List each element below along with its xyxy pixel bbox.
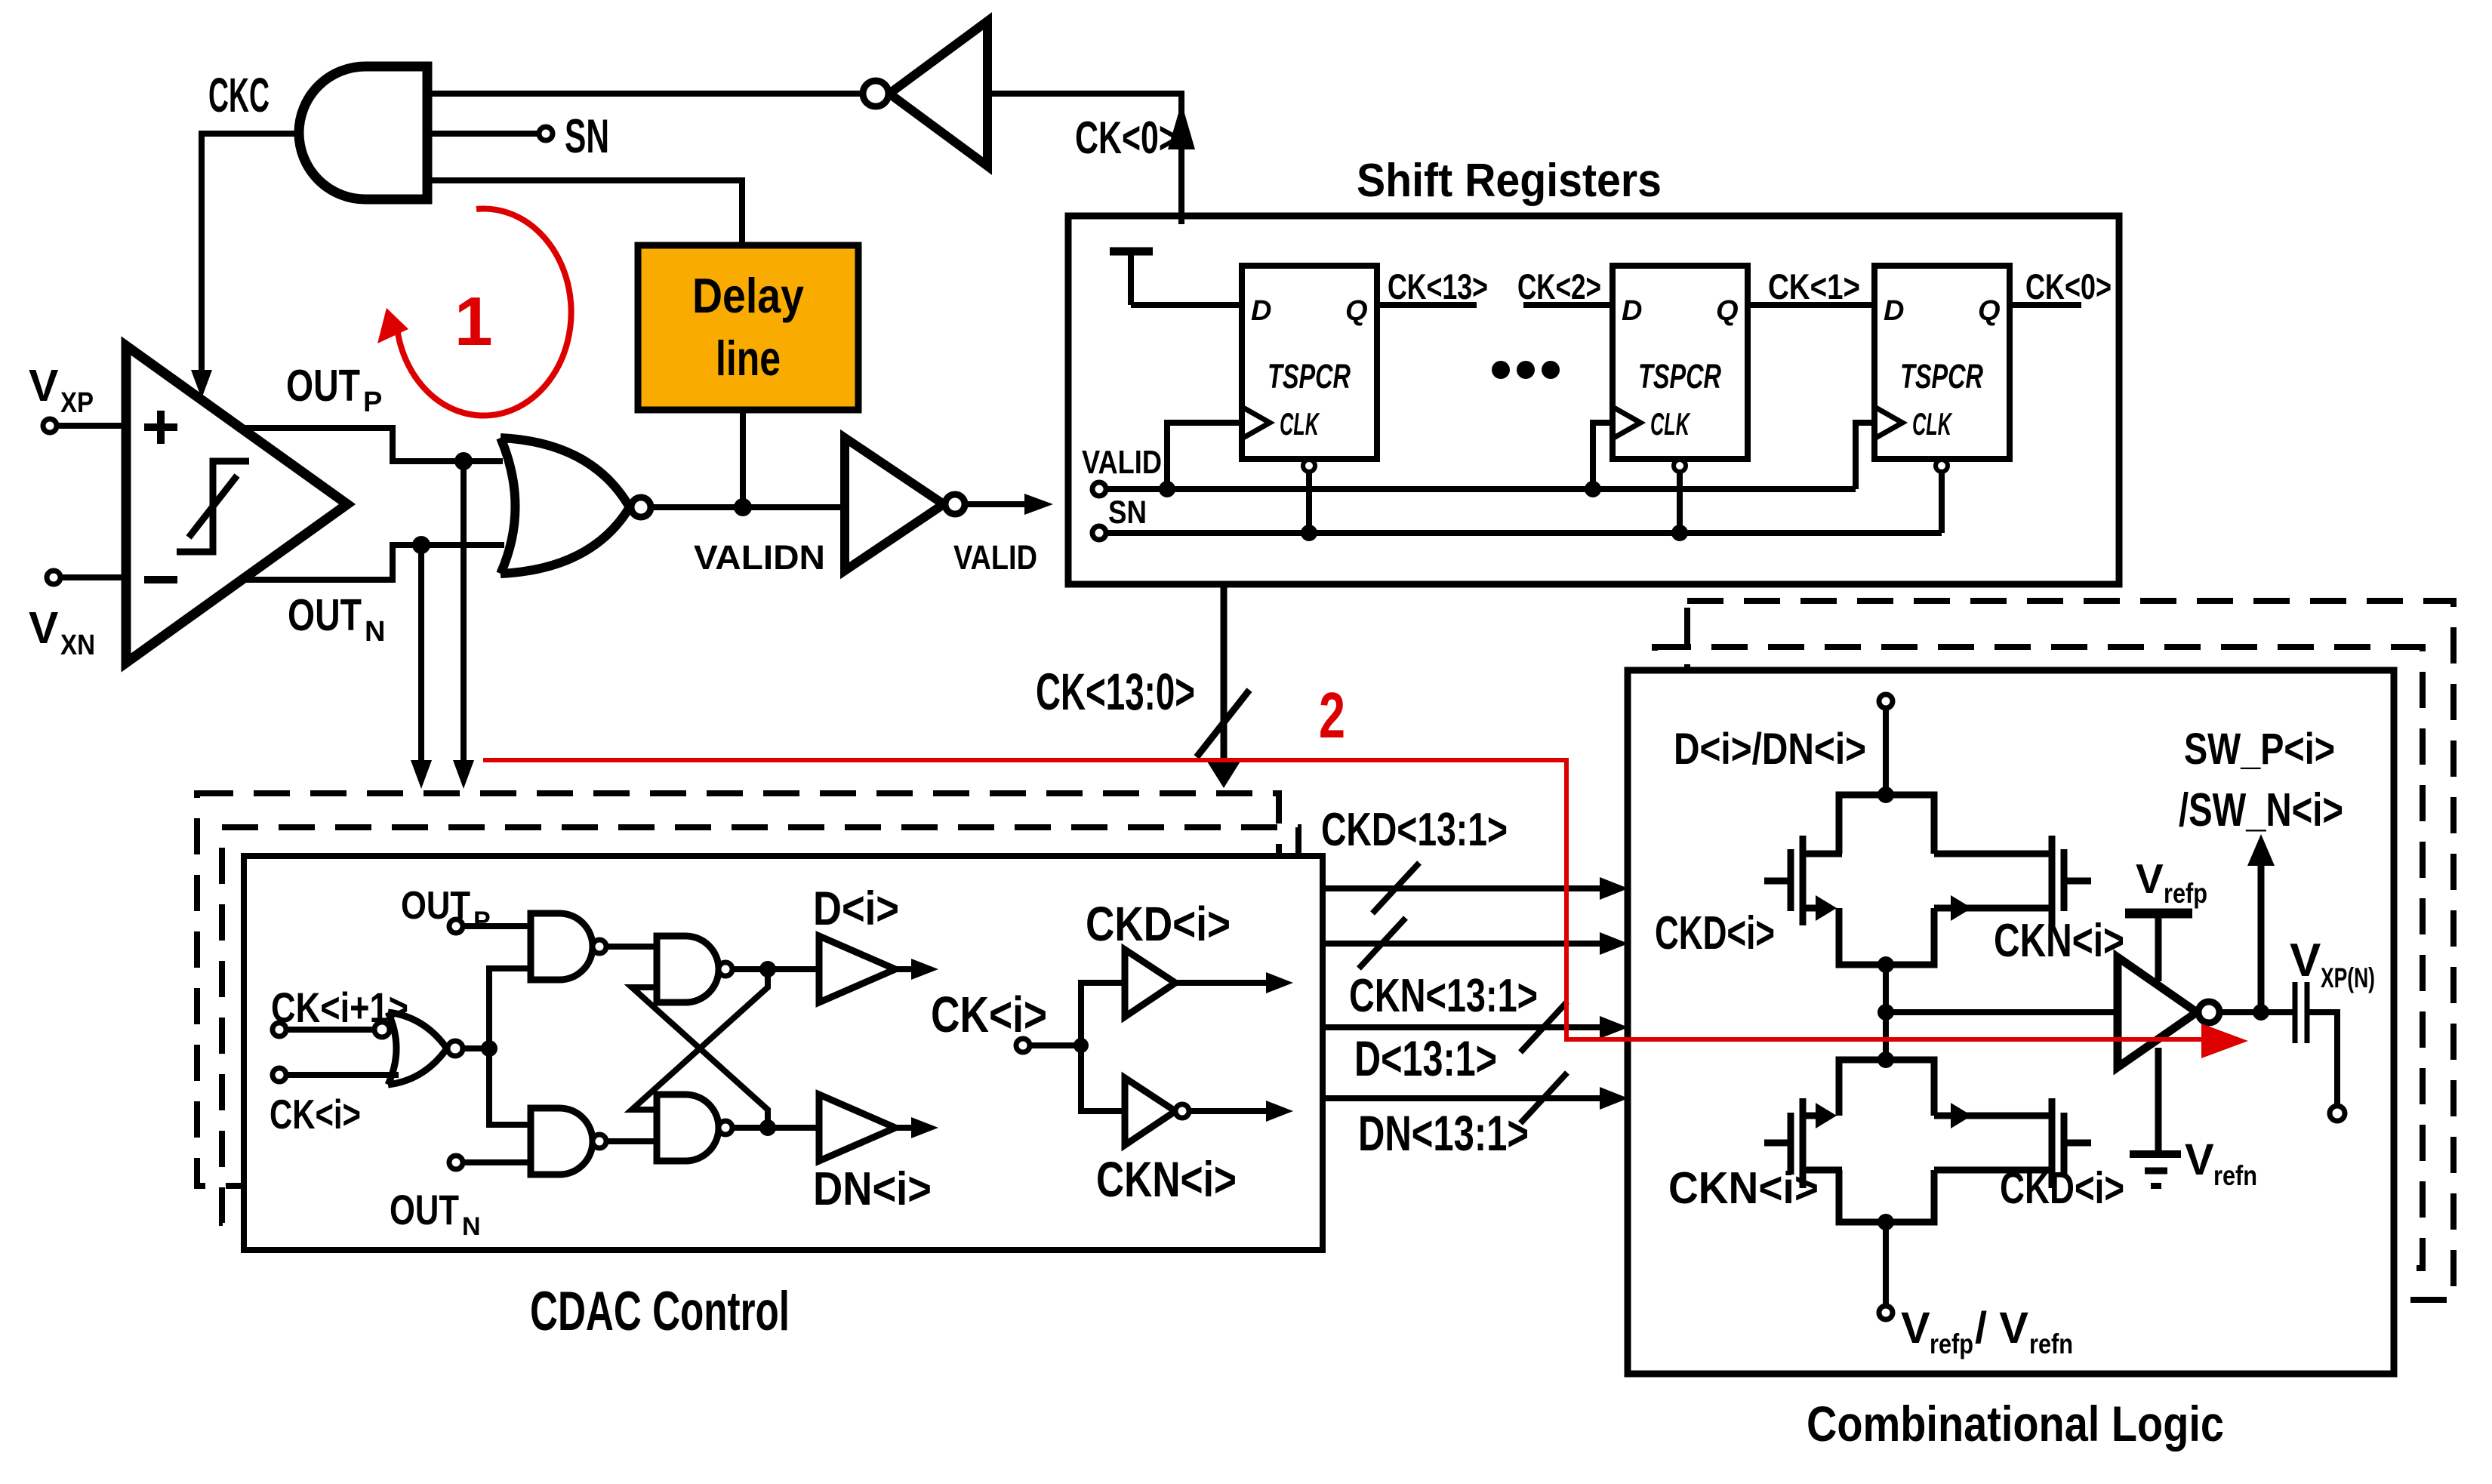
svg-text:CLK: CLK bbox=[1912, 406, 1953, 442]
svg-text:D<13:1>: D<13:1> bbox=[1354, 1030, 1497, 1086]
TG2 top rail bbox=[1839, 1060, 1934, 1116]
wire OUTN to NAND2 bbox=[463, 1159, 531, 1165]
wire clock of U8 from VALID rail bbox=[1856, 423, 1874, 489]
wire U13 output to DN buffer bbox=[732, 1125, 819, 1131]
svg-text:SN: SN bbox=[565, 110, 609, 163]
svg-text:OUT: OUT bbox=[390, 1186, 459, 1233]
wire branch up to CKD buffer bbox=[1081, 983, 1125, 1045]
wire cross-couple U13 out to U12 input bbox=[632, 987, 768, 1128]
wire bus DN<13:1> to comb logic bbox=[1323, 1095, 1602, 1101]
svg-text:CK<2>: CK<2> bbox=[1517, 266, 1601, 306]
svg-text:CK<13:0>: CK<13:0> bbox=[1036, 663, 1195, 721]
inverter U17 (CKN<i>) bbox=[1125, 1078, 1189, 1145]
nor gate U3 (VALIDN generator) bbox=[501, 438, 651, 574]
wire junction up to NAND1 input bbox=[489, 968, 531, 1048]
wire OUTP stepped from comparator to NOR input bbox=[241, 428, 503, 461]
svg-text:Delay: Delay bbox=[692, 268, 804, 323]
wire SW_P<i>/SW_N<i> arrow up bbox=[2258, 863, 2265, 1012]
svg-text:refn: refn bbox=[2213, 1160, 2257, 1191]
svg-text:V: V bbox=[2185, 1135, 2214, 1184]
wire U9 output to U12 input bbox=[606, 944, 657, 950]
transistor M2 (TG1 right) bbox=[1934, 836, 2091, 925]
wire VALIDN: NOR output to inverter bbox=[651, 504, 845, 510]
comparator hysteresis symbol bbox=[177, 461, 249, 552]
wire DN<i> output arrow bbox=[895, 1125, 915, 1131]
svg-text:SW_P<i>: SW_P<i> bbox=[2184, 725, 2335, 774]
svg-text:D: D bbox=[1884, 295, 1904, 327]
flip-flop U6 TSPCR bbox=[1242, 266, 1377, 459]
svg-text:CKC: CKC bbox=[208, 68, 270, 122]
CDAC dashed page outer bbox=[197, 793, 1279, 1186]
wire branch down to CKN inverter bbox=[1081, 1045, 1125, 1111]
transistor M1 (TG1 left) bbox=[1764, 836, 1842, 925]
wire TG1 bottom to middle node bbox=[1883, 965, 1889, 1060]
node SN terminal circle bbox=[539, 127, 553, 140]
svg-text:Q: Q bbox=[1716, 295, 1739, 327]
wire TG2 bottom to Vref terminal bbox=[1883, 1222, 1889, 1306]
node CK<i> buffer input terminal bbox=[1016, 1039, 1030, 1052]
shift registers box bbox=[1068, 216, 2119, 584]
wire bus CKD<13:1> to comb logic bbox=[1323, 885, 1602, 891]
svg-text:CK<1>: CK<1> bbox=[1768, 266, 1860, 306]
wire CK<i> to branch junction bbox=[1030, 1042, 1081, 1048]
node OUTN terminal in CDAC bbox=[449, 1156, 463, 1169]
wire U12 output to D buffer bbox=[732, 966, 819, 972]
wire: AND middle input from SN terminal bbox=[427, 131, 539, 137]
svg-text:2: 2 bbox=[1319, 680, 1345, 752]
inverter U4 (VALID) bbox=[845, 438, 965, 571]
wire VXN to comparator bbox=[60, 574, 126, 580]
svg-text:VALID: VALID bbox=[1082, 444, 1162, 481]
wire junction down to NAND2 input bbox=[489, 1048, 531, 1125]
nand gate U9 bbox=[531, 913, 606, 980]
CDAC control box bbox=[244, 856, 1323, 1250]
comb logic dashed page inner bbox=[1655, 647, 2423, 1268]
svg-text:/ V: / V bbox=[1975, 1304, 2028, 1353]
node reset pin circle of U6 bbox=[1303, 460, 1315, 472]
svg-text:XP(N): XP(N) bbox=[2321, 962, 2375, 993]
svg-text:N: N bbox=[462, 1212, 481, 1241]
node VALID terminal in SR box bbox=[1092, 482, 1106, 496]
svg-text:P: P bbox=[363, 386, 382, 418]
wire OUTP to NAND1 bbox=[463, 923, 531, 929]
wire U8 reset to SN rail bbox=[1939, 472, 1945, 533]
svg-text:1: 1 bbox=[454, 284, 493, 360]
TG2 bottom rail bbox=[1839, 1170, 1934, 1222]
svg-text:/SW_N<i>: /SW_N<i> bbox=[2179, 784, 2343, 836]
buffer U16 (CKD<i>) bbox=[1125, 950, 1175, 1017]
svg-text:VALIDN: VALIDN bbox=[694, 538, 825, 577]
wire CK<13:0> bus down from SR box with arrow bbox=[1221, 584, 1228, 776]
svg-text:D<i>/DN<i>: D<i>/DN<i> bbox=[1674, 725, 1866, 774]
svg-text:OUT: OUT bbox=[401, 884, 470, 928]
node reset pin circle of U8 bbox=[1936, 460, 1948, 472]
bus slash DN<13:1> bbox=[1520, 1073, 1567, 1123]
node VXP(N) terminal bbox=[2330, 1106, 2345, 1121]
svg-text:CK<13>: CK<13> bbox=[1388, 266, 1488, 306]
svg-text:CKD<13:1>: CKD<13:1> bbox=[1321, 804, 1508, 856]
inverter U5 (top feedback, points left) bbox=[863, 21, 987, 166]
combinational logic box bbox=[1628, 670, 2394, 1374]
bus slash on CK<13:0> bbox=[1197, 690, 1249, 757]
svg-text:OUT: OUT bbox=[288, 590, 362, 640]
wire OUTN branch down to CDAC control with arrow bbox=[418, 545, 424, 777]
wire CK<i+1> to NOR input bubble bbox=[286, 1027, 374, 1033]
node SN terminal in SR box bbox=[1092, 526, 1106, 540]
wire U11 output to U13 input bbox=[606, 1138, 657, 1144]
node junction VALIDN/delay bbox=[734, 498, 752, 516]
transistor M3 (TG2 left) bbox=[1764, 1098, 1842, 1188]
wire clock of U7 from VALID rail bbox=[1593, 423, 1613, 489]
svg-text:V: V bbox=[29, 361, 58, 411]
capacitor C1 bbox=[2295, 982, 2307, 1043]
svg-text:XP: XP bbox=[60, 387, 94, 419]
dots ellipsis between flip-flops bbox=[1492, 361, 1560, 379]
svg-text:CK<0>: CK<0> bbox=[2025, 266, 2112, 306]
wire U7 reset to SN rail bbox=[1677, 472, 1683, 533]
delay line block bbox=[638, 245, 858, 410]
svg-text:Combinational Logic: Combinational Logic bbox=[1807, 1396, 2224, 1452]
node OUTP terminal in CDAC bbox=[449, 919, 463, 933]
svg-text:CK<0>: CK<0> bbox=[1075, 112, 1178, 163]
svg-text:Q: Q bbox=[1978, 295, 2001, 327]
red loop arrow 1 bbox=[377, 209, 571, 416]
svg-text:refn: refn bbox=[2029, 1329, 2073, 1359]
node CK<i> terminal lower bbox=[273, 1068, 286, 1082]
comparator U2 bbox=[126, 346, 347, 663]
node VXP input terminal bbox=[43, 419, 57, 433]
svg-text:TSPCR: TSPCR bbox=[1900, 357, 1983, 396]
TG1 top rail bbox=[1839, 795, 1934, 854]
wire D input of FF1 bbox=[1131, 302, 1242, 308]
svg-text:CLK: CLK bbox=[1650, 406, 1691, 442]
wire: AND bottom input from delay line output bbox=[427, 180, 742, 245]
svg-text:TSPCR: TSPCR bbox=[1268, 357, 1351, 396]
svg-text:CDAC Control: CDAC Control bbox=[530, 1281, 790, 1342]
svg-text:TSPCR: TSPCR bbox=[1638, 357, 1721, 396]
svg-text:DN<i>: DN<i> bbox=[813, 1163, 932, 1215]
wire buffer output to capacitor bbox=[2219, 1009, 2293, 1015]
wire top terminal down to TG1 bbox=[1883, 708, 1889, 795]
svg-text:D: D bbox=[1622, 295, 1642, 327]
node D<i>/DN<i> top terminal bbox=[1879, 694, 1893, 708]
nand gate U11 bbox=[531, 1108, 606, 1175]
wire bus D<13:1> to comb logic bbox=[1323, 1024, 1602, 1030]
wire CKN<i> output arrow bbox=[1189, 1108, 1268, 1114]
wire: AND top input from inverter, net to CK<0>bar bbox=[427, 91, 863, 97]
vdd tie-high T symbol bbox=[1110, 251, 1153, 305]
svg-text:CKN<13:1>: CKN<13:1> bbox=[1349, 970, 1538, 1022]
and gate U1 (mirrored, output on left = CKC) bbox=[299, 66, 427, 199]
wire middle node to buffer input bbox=[1886, 1009, 2118, 1015]
wire VALID output arrow toward shift register box bbox=[965, 501, 1027, 507]
svg-text:SN: SN bbox=[1108, 494, 1147, 531]
flip-flop U7 TSPCR bbox=[1613, 266, 1748, 459]
node VXN input terminal bbox=[47, 571, 60, 584]
svg-text:CK<i>: CK<i> bbox=[931, 987, 1047, 1043]
comb logic dashed page outer bbox=[1687, 601, 2453, 1300]
wire Q of U7 to D of U8 = CK<1> bbox=[1748, 302, 1874, 308]
svg-text:CK<i>: CK<i> bbox=[270, 1091, 361, 1138]
node CK<i+1> terminal bbox=[273, 1023, 286, 1036]
svg-text:Shift Registers: Shift Registers bbox=[1357, 155, 1662, 207]
wire: delay line input from VALIDN node bbox=[740, 410, 746, 507]
svg-text:OUT: OUT bbox=[286, 361, 360, 411]
svg-text:CKD<i>: CKD<i> bbox=[2000, 1163, 2124, 1213]
wire SN rail bbox=[1106, 530, 1942, 536]
nand gate U12 (latch top) bbox=[657, 936, 732, 1002]
wire VXP to comparator bbox=[57, 423, 126, 429]
svg-text:CKN<i>: CKN<i> bbox=[1668, 1163, 1819, 1213]
bus slash CKD<13:1> bbox=[1372, 863, 1419, 913]
buffer U18 (switch driver) bbox=[2118, 957, 2219, 1067]
TG1 bottom rail bbox=[1839, 908, 1934, 965]
red path 2: OUT nets routed to combinational logic bbox=[483, 760, 2204, 1039]
transmission gate TG2 (lower) bbox=[1764, 1051, 2091, 1230]
wire ground stem bbox=[2155, 1048, 2162, 1154]
svg-text:refp: refp bbox=[1930, 1329, 1973, 1359]
wire cross-couple U12 out to U13 input bbox=[632, 969, 768, 1110]
wire D<i> output arrow bbox=[895, 966, 915, 972]
wire OUTP branch down to CDAC control with arrow bbox=[461, 461, 467, 777]
wire Q of U6 = CK<13> bbox=[1377, 302, 1477, 308]
transmission gate TG1 (upper) bbox=[1764, 787, 2091, 973]
wire CKC: AND output to comparator clock, with down arrow bbox=[202, 134, 302, 386]
wire OUTN stepped from comparator to NOR input bbox=[241, 545, 504, 580]
comparator plus sign bbox=[144, 423, 177, 431]
bus slash CKN<13:1> bbox=[1359, 918, 1406, 968]
wire CKD<i> output arrow bbox=[1175, 980, 1268, 986]
svg-text:D<i>: D<i> bbox=[813, 882, 899, 935]
CDAC dashed page inner bbox=[222, 827, 1298, 1223]
buffer U14 (D<i>) bbox=[819, 936, 895, 1002]
svg-text:CLK: CLK bbox=[1280, 406, 1320, 442]
wire U6 reset to SN rail bbox=[1306, 472, 1312, 533]
svg-text:CKD<i>: CKD<i> bbox=[1086, 897, 1231, 951]
svg-text:CKD<i>: CKD<i> bbox=[1655, 907, 1775, 959]
svg-text:V: V bbox=[1901, 1304, 1930, 1353]
nand gate U13 (latch bottom) bbox=[657, 1095, 732, 1161]
svg-text:VALID: VALID bbox=[953, 538, 1037, 577]
wire CK<i> to NOR input bbox=[286, 1072, 399, 1078]
ground Vrefn bbox=[2130, 1154, 2181, 1186]
svg-text:V: V bbox=[2290, 934, 2321, 987]
wire capacitor to bottom terminal bbox=[2309, 1012, 2337, 1106]
wire VALID rail bbox=[1106, 486, 1856, 492]
wire clock of U6 from VALID rail bbox=[1167, 423, 1242, 489]
svg-text:N: N bbox=[365, 616, 385, 648]
svg-text:D: D bbox=[1251, 295, 1271, 327]
comparator minus sign bbox=[144, 576, 177, 583]
svg-text:V: V bbox=[2136, 855, 2164, 902]
wire D input of FF2 with label CK<2> bbox=[1523, 302, 1613, 308]
node junction on OUTN bbox=[412, 536, 430, 554]
vrefp supply bar bbox=[2125, 913, 2192, 981]
svg-text:XN: XN bbox=[60, 630, 95, 661]
transistor M4 (TG2 right) bbox=[1934, 1098, 2091, 1188]
wire bus CKN<13:1> to comb logic bbox=[1323, 941, 1602, 947]
wire NOR U10 output to junction bbox=[463, 1045, 489, 1051]
bus slash D<13:1> bbox=[1520, 1002, 1567, 1052]
svg-text:DN<13:1>: DN<13:1> bbox=[1358, 1105, 1529, 1161]
svg-text:refp: refp bbox=[2164, 878, 2207, 909]
svg-text:Q: Q bbox=[1345, 295, 1368, 327]
svg-text:P: P bbox=[473, 907, 491, 935]
buffer U15 (DN<i>) bbox=[819, 1095, 895, 1161]
node Vrefp/Vrefn bottom terminal bbox=[1879, 1306, 1893, 1319]
svg-text:CKN<i>: CKN<i> bbox=[1994, 915, 2124, 967]
svg-text:V: V bbox=[29, 603, 58, 653]
nor gate U10 with input bubble bbox=[374, 1012, 463, 1085]
svg-text:CKN<i>: CKN<i> bbox=[1096, 1151, 1237, 1207]
node reset pin circle of U7 bbox=[1674, 460, 1686, 472]
flip-flop U8 TSPCR bbox=[1874, 266, 2010, 459]
node junction on OUTP bbox=[454, 452, 473, 470]
wire CK<0> feedback: from SR box top to inverter input, arrow up bbox=[987, 94, 1181, 224]
wire Q of U8 = CK<0> bbox=[2010, 302, 2081, 308]
svg-text:line: line bbox=[716, 331, 781, 386]
